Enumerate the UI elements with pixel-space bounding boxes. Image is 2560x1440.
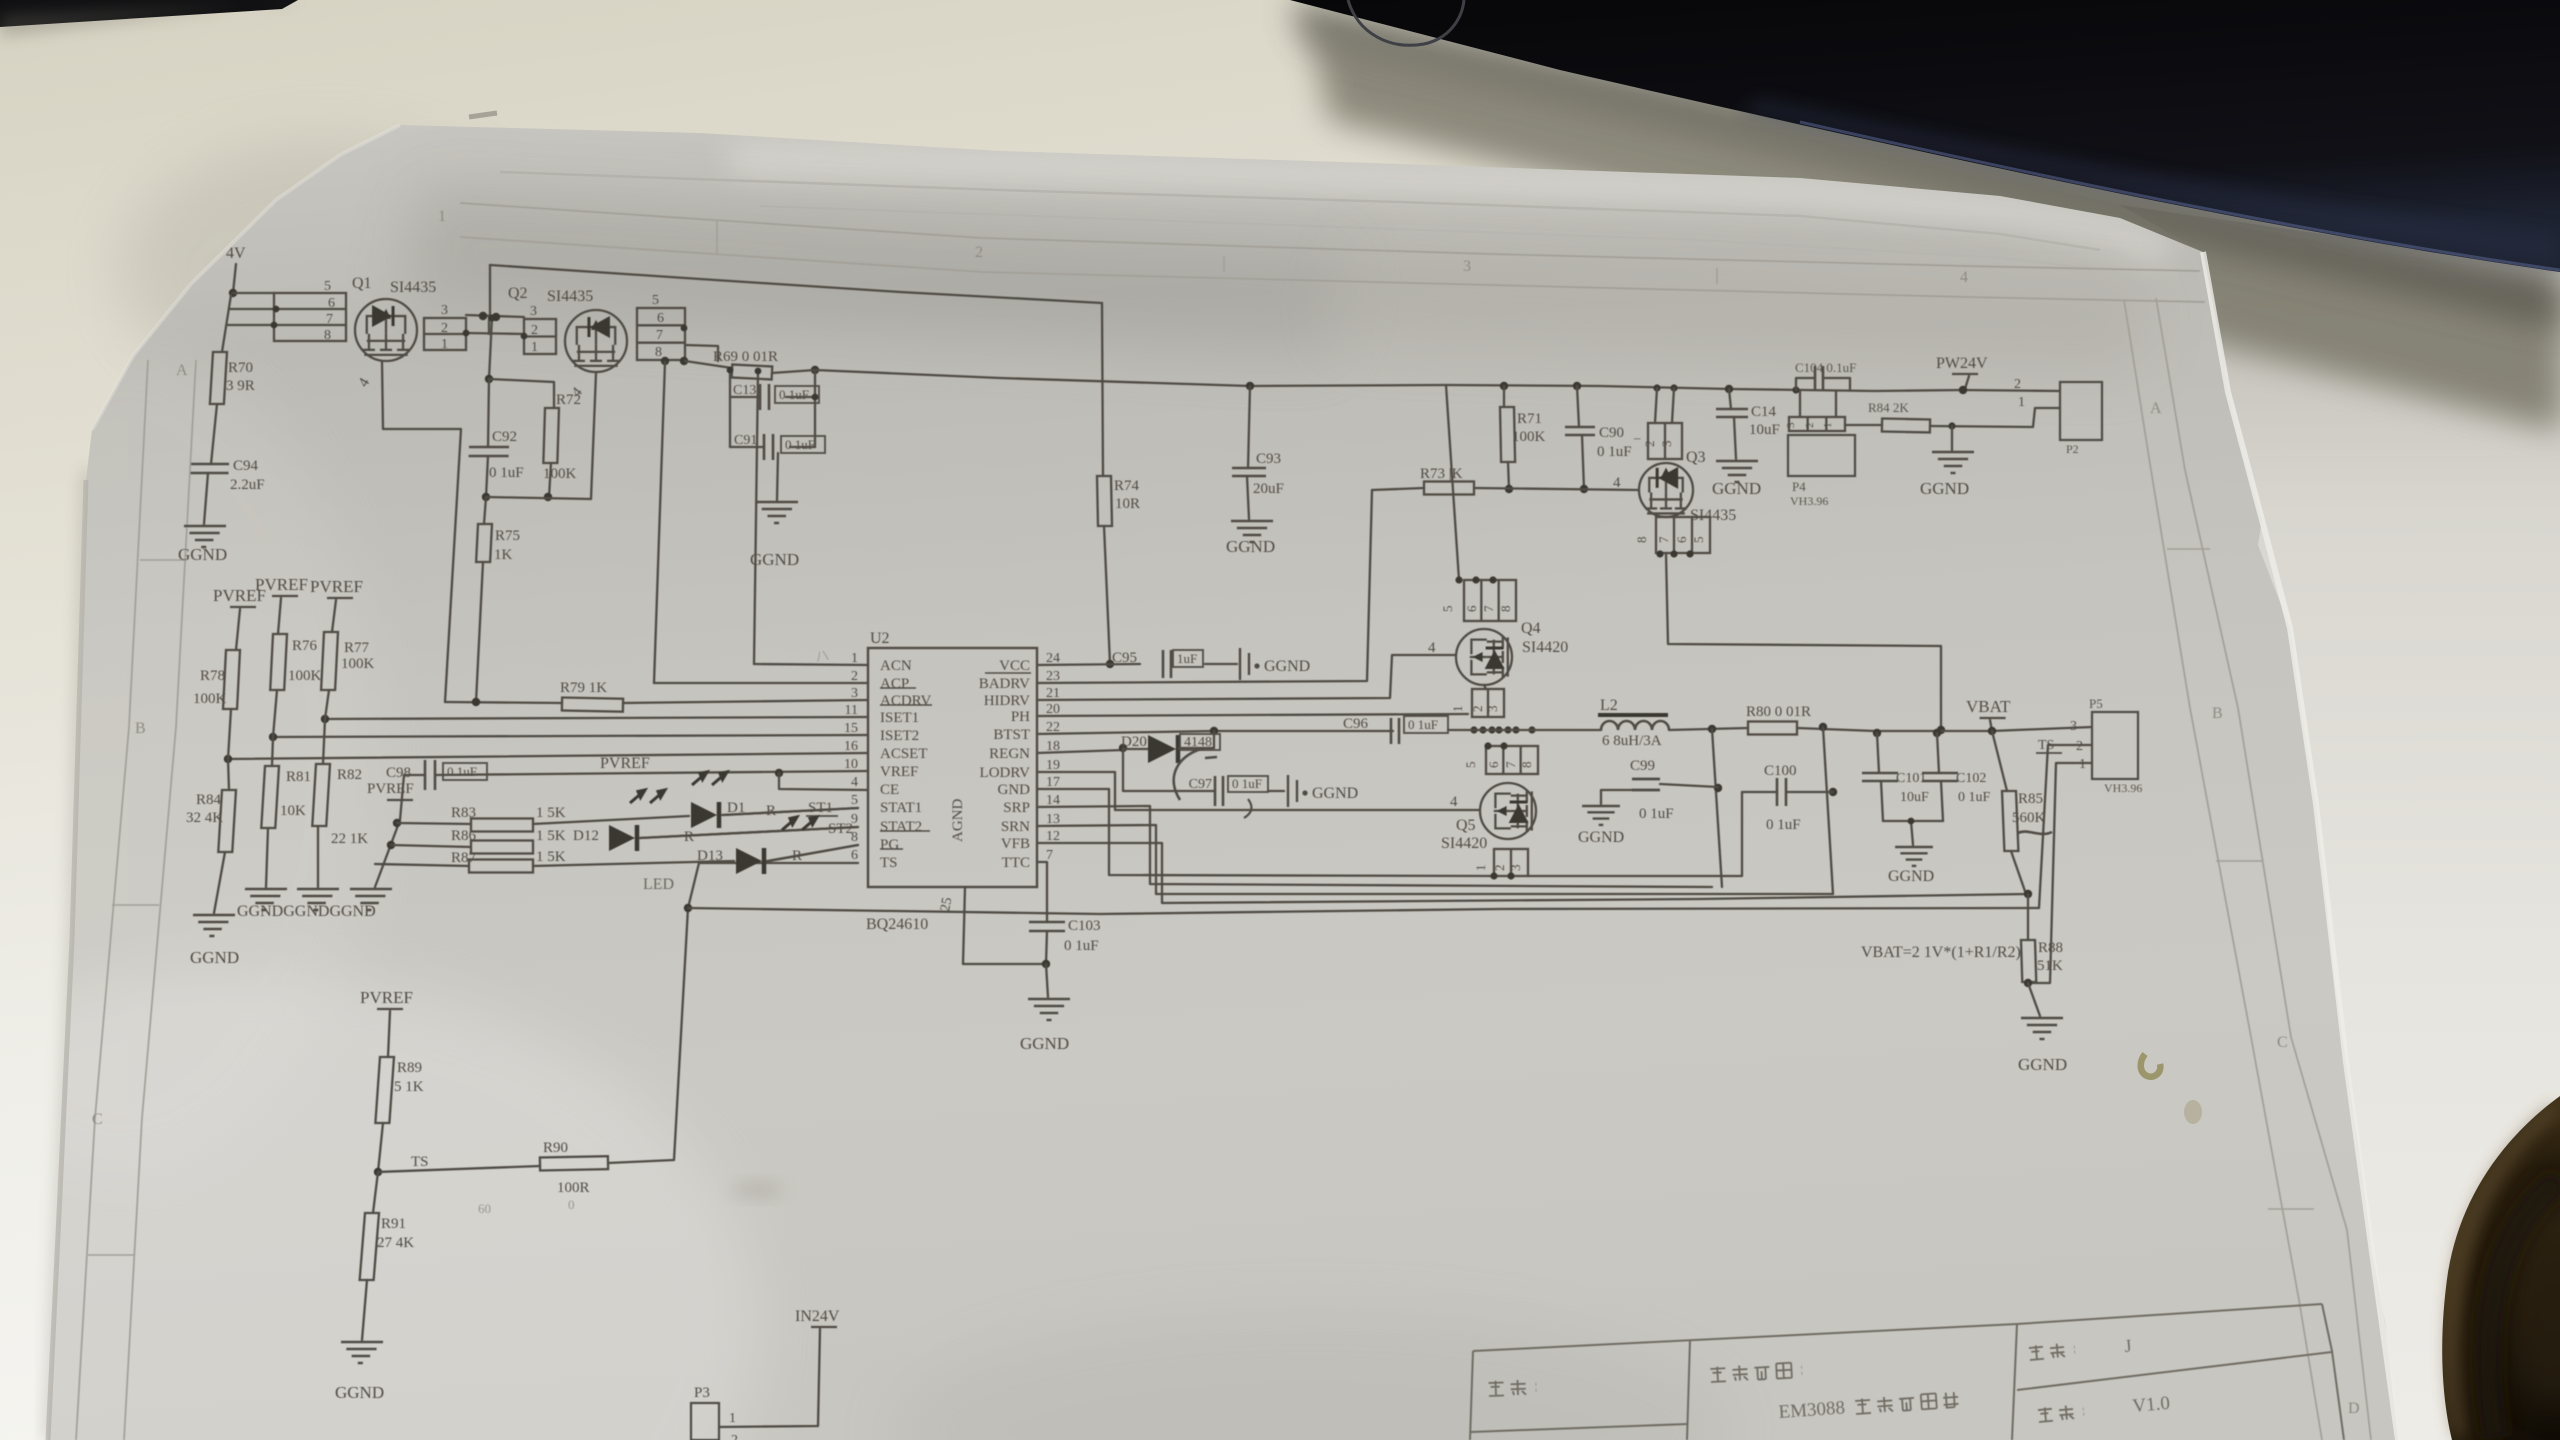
capacitor C97: [1215, 776, 1223, 806]
wire R84a bottom: [214, 852, 225, 913]
node Q1 out b: [492, 313, 500, 321]
wire Q3 pin3 lead: [1672, 388, 1674, 423]
svg-text:5: 5: [1691, 537, 1706, 544]
title block top line: [1473, 1304, 2322, 1351]
resistor R81: [261, 766, 279, 828]
svg-text:3: 3: [441, 303, 448, 318]
svg-text:1 5K: 1 5K: [536, 805, 566, 821]
net PVREF C98 bar: [387, 799, 413, 801]
frame right tick B-C: [2216, 860, 2262, 862]
Q5 bottom pin box: [1494, 849, 1528, 876]
svg-text:6: 6: [328, 296, 335, 311]
svg-text:R85: R85: [2018, 791, 2043, 807]
wire U2 TTC: [1037, 862, 1047, 922]
title text number: [2029, 1342, 2076, 1360]
Q3 bottom pin box: [1656, 517, 1710, 553]
svg-text:0 1uF: 0 1uF: [779, 387, 809, 402]
resistor R77: [321, 632, 338, 690]
paper top edge highlight band: [730, 160, 2170, 250]
node ISET2 R81 column: [269, 733, 277, 741]
svg-text:2: 2: [975, 244, 983, 261]
node PH row 6: [1528, 726, 1535, 733]
resistor R88: [2021, 940, 2036, 982]
capacitor C103: [1029, 922, 1065, 931]
ground GGND 2: [295, 889, 339, 910]
svg-text:C91: C91: [734, 433, 757, 448]
svg-text:SI4435: SI4435: [390, 279, 436, 296]
desk contact shadow left of paper: [50, 470, 88, 1440]
resistor R82: [312, 764, 330, 826]
title text charger-circuit: [1855, 1392, 1959, 1414]
wire GND bus right: [1528, 792, 1742, 876]
svg-text:BADRV: BADRV: [979, 676, 1030, 692]
transistor Q3: [1639, 463, 1693, 517]
svg-text:Q3: Q3: [1686, 449, 1706, 466]
wire REGN to D20: [1123, 748, 1148, 750]
svg-text:R: R: [792, 848, 802, 864]
wire U2 pin16 ACSET: [228, 753, 868, 759]
svg-text:2.2uF: 2.2uF: [230, 477, 265, 493]
ground GGND under C91: [756, 502, 798, 523]
connector P3 body: [691, 1403, 719, 1440]
wire VCC to C95: [1037, 664, 1140, 665]
svg-text:R75: R75: [495, 528, 520, 544]
wire R71 top: [1503, 386, 1505, 407]
wire C97 to gnd: [1268, 790, 1284, 792]
svg-text:Q1: Q1: [352, 275, 372, 292]
svg-text:R82: R82: [337, 767, 362, 783]
svg-text:GGND: GGND: [1712, 479, 1761, 498]
wire R76 bottom: [273, 690, 277, 737]
svg-text:R78: R78: [200, 668, 225, 684]
sheet frame top outer line: [460, 203, 2200, 271]
round dark object bottom-right: [2442, 1096, 2560, 1440]
svg-text:4: 4: [1960, 269, 1968, 286]
svg-text:BTST: BTST: [993, 727, 1030, 743]
svg-text:P2: P2: [2066, 442, 2079, 456]
frame left tick A-B: [140, 559, 187, 561]
paper shadow top-right: [1330, 245, 2150, 370]
svg-text:PVREF: PVREF: [255, 575, 308, 594]
svg-text:1: 1: [2079, 757, 2086, 772]
svg-text:PVREF: PVREF: [367, 781, 414, 797]
svg-text:0 1uF: 0 1uF: [1064, 938, 1099, 954]
svg-text:IN24V: IN24V: [795, 1308, 840, 1325]
net IN24V bar: [811, 1326, 837, 1328]
wire U2 pin4 CE: [779, 773, 868, 790]
svg-text:4V: 4V: [226, 245, 246, 262]
wire R85 bottom: [2011, 851, 2026, 894]
svg-text:0 1uF: 0 1uF: [1232, 776, 1262, 791]
wire U2 pin15 ISET2: [273, 735, 868, 737]
wire R81 bottom: [266, 828, 268, 887]
ground GGND at C99: [1582, 806, 1620, 825]
Q2 left pin box: [524, 319, 556, 354]
wire C100 left lead: [1742, 791, 1777, 793]
capacitor C99: [1632, 779, 1660, 790]
svg-text:100K: 100K: [543, 466, 577, 482]
svg-text:C101: C101: [1896, 771, 1926, 786]
wire U2 pin10 VREF row: [436, 771, 868, 775]
thin cable loop: [1348, 0, 1464, 45]
resistor R73: [1424, 482, 1474, 495]
frame right tick C-D: [2268, 1208, 2314, 1210]
node R84 gnd tap: [1948, 422, 1955, 429]
transistor Q2: [565, 310, 627, 372]
wire ACN vertical: [754, 371, 758, 664]
ground GGND near P2: [1932, 452, 1974, 473]
LED arrows ST2: [782, 817, 817, 830]
wire R80 to VBAT: [1797, 727, 2092, 731]
svg-text:20uF: 20uF: [1253, 481, 1284, 497]
svg-text:16: 16: [844, 739, 858, 754]
Q2 right pin box: [637, 308, 685, 360]
svg-text:11: 11: [845, 703, 858, 718]
node Q1 out a: [479, 312, 487, 320]
wire R75 top: [484, 497, 486, 524]
under sheet shadow band: [2150, 230, 2560, 420]
svg-text:TS: TS: [411, 1154, 429, 1170]
svg-text:C90: C90: [1599, 425, 1624, 441]
resistor R71: [1500, 407, 1515, 462]
wire U2 BADRV: [1037, 490, 1372, 683]
svg-text:100K: 100K: [288, 668, 322, 684]
node PH row 0: [1470, 726, 1477, 733]
svg-text:TTC: TTC: [1002, 855, 1030, 871]
capacitor C96: [1391, 718, 1399, 744]
wire C104 stub: [1796, 378, 1815, 390]
title block left edge: [1470, 1351, 1473, 1440]
svg-text:A: A: [2150, 400, 2162, 417]
svg-text:R88: R88: [2038, 940, 2063, 956]
capacitor C94: [191, 464, 229, 473]
olive stain: [2141, 1054, 2161, 1077]
svg-text:10: 10: [844, 757, 858, 772]
svg-text:GGND: GGND: [1226, 537, 1275, 556]
paper stack crease line 2: [760, 206, 2090, 268]
wire PVREF stub R78: [236, 609, 240, 650]
wire R81 top: [272, 737, 273, 766]
node C14 rail tap: [1725, 385, 1733, 393]
node Q1 box row6: [273, 306, 280, 313]
svg-text:R84: R84: [196, 792, 222, 808]
svg-text:8: 8: [1519, 762, 1534, 769]
node PW24V rail: [1959, 386, 1967, 394]
svg-text:12: 12: [1046, 829, 1060, 844]
wire C92 mid: [488, 379, 489, 447]
capacitor C104: [1815, 366, 1823, 390]
P4 pin box: [1789, 417, 1845, 431]
svg-text:BQ24610: BQ24610: [866, 916, 928, 933]
wire R85 top: [1992, 731, 2007, 791]
Q4 top pin box: [1464, 580, 1516, 621]
svg-text:PVREF: PVREF: [310, 577, 363, 596]
node C92 top junction: [485, 375, 493, 383]
wire R82 bottom: [317, 826, 319, 887]
transistor Q4: [1456, 629, 1512, 685]
svg-text:GGND: GGND: [190, 948, 239, 967]
wire SRN sense vertical: [1823, 727, 1833, 894]
wire C102 top: [1937, 733, 1939, 773]
svg-text:GGND: GGND: [1312, 785, 1358, 802]
svg-text:R76: R76: [292, 638, 318, 654]
svg-text:LODRV: LODRV: [980, 765, 1031, 781]
svg-text:7: 7: [1503, 761, 1518, 768]
svg-text:GGND: GGND: [1920, 479, 1969, 498]
node VREF-CE junction: [775, 769, 783, 777]
U2 overline PG: [880, 848, 903, 850]
wire Q1 to Q2 row2: [466, 333, 524, 334]
wire R89 bottom: [378, 1123, 383, 1172]
wire U2 pin11 ISET1: [325, 717, 868, 719]
svg-text:GGND: GGND: [1020, 1034, 1069, 1053]
frame left tick C-D: [88, 1254, 135, 1256]
capacitor C91: [764, 434, 773, 460]
node LED row1 tap: [393, 819, 401, 827]
svg-text:VREF: VREF: [880, 764, 918, 780]
svg-text:ACP: ACP: [880, 676, 909, 692]
svg-text:R90: R90: [543, 1140, 568, 1156]
svg-text:AGND: AGND: [950, 799, 966, 842]
svg-text:ハ: ハ: [814, 649, 830, 666]
wire PH node row: [1448, 729, 1601, 731]
wire U2 GND17: [1037, 789, 1494, 876]
svg-text:TS: TS: [2038, 738, 2054, 753]
wire U2 VFB: [1037, 843, 2028, 903]
wire LED row3: [375, 864, 469, 866]
svg-text:6 8uH/3A: 6 8uH/3A: [1602, 733, 1662, 749]
Q4 bottom pin box: [1472, 689, 1504, 717]
svg-text:C96: C96: [1343, 716, 1369, 732]
paper bright left-mid: [0, 340, 380, 1180]
resistor R75: [476, 524, 492, 562]
node C92 wire tap: [488, 314, 495, 321]
svg-text:6: 6: [657, 311, 664, 326]
resistor R85: [2002, 791, 2018, 851]
torn right edge highlight: [2203, 252, 2398, 1440]
svg-text:TS: TS: [880, 855, 898, 871]
wire U2 pin3 ACDRV / R79 row: [623, 700, 868, 703]
inductor L2: [1601, 721, 1669, 730]
node Q2 out row8b: [680, 357, 688, 365]
connector P5 body: [2092, 712, 2138, 779]
wire R84a top: [228, 759, 229, 790]
svg-text:5: 5: [1463, 762, 1478, 769]
svg-text:B: B: [2212, 705, 2223, 722]
paper corner shadow: [120, 140, 540, 400]
svg-text:8: 8: [655, 345, 662, 360]
svg-text:0 1uF: 0 1uF: [1597, 444, 1632, 460]
svg-text:Q2: Q2: [508, 285, 528, 302]
wire Q1 gate: [382, 361, 461, 702]
svg-text:C100: C100: [1764, 763, 1797, 779]
wire Q1 row7 stub: [228, 324, 274, 326]
svg-text:R80 0 01R: R80 0 01R: [1746, 704, 1811, 720]
ground GGND 4: [191, 915, 235, 936]
wire C92 bottom: [486, 456, 488, 497]
U2 overline ACDRV: [880, 704, 932, 706]
svg-text:0: 0: [568, 1197, 575, 1212]
Q1 left pin box: [274, 293, 346, 341]
wire R88 to ground: [2028, 983, 2040, 1016]
wire C98 left lead: [375, 775, 425, 887]
svg-text:51K: 51K: [2037, 958, 2063, 974]
wire C91 right lead: [790, 446, 815, 448]
wire U2 pin9 STAT2: [640, 827, 858, 838]
svg-text:C97: C97: [1189, 777, 1212, 792]
paper edge shadow along left: [48, 480, 86, 1440]
wire C101 top: [1877, 733, 1879, 773]
wire PW24V stub: [1965, 376, 1969, 389]
svg-text:Q5: Q5: [1456, 817, 1476, 834]
wire P4 lead1: [1835, 391, 1837, 417]
wire R82 top: [323, 719, 325, 764]
svg-text:C93: C93: [1256, 451, 1281, 467]
svg-text:C102: C102: [1956, 771, 1986, 786]
capacitor C92: [469, 447, 509, 456]
svg-text:L2: L2: [1600, 697, 1618, 714]
wire C14 top: [1729, 389, 1731, 409]
wire C90 top: [1577, 386, 1579, 427]
ground GGND under R91: [339, 1342, 383, 1363]
wire R70 top lead: [222, 295, 231, 352]
svg-text:5: 5: [652, 293, 659, 308]
wire U2 pin8 PG: [769, 845, 858, 861]
svg-text:4: 4: [1613, 475, 1621, 491]
wire R84 to P2 pin1: [1930, 408, 2060, 427]
svg-text:2: 2: [1470, 706, 1485, 713]
svg-text:1 5K: 1 5K: [536, 849, 566, 865]
wire U2 pin2 ACP: [654, 682, 868, 684]
wire D13 to pin8: [767, 845, 858, 861]
node Q3 src b: [1670, 550, 1677, 557]
sheet frame top inner line: [460, 237, 2205, 302]
wire TS long: [688, 745, 2092, 914]
black object edge sheen: [1800, 122, 2560, 270]
wire Q3 source to VBAT: [1666, 554, 1941, 729]
wire TS row: [378, 1166, 540, 1172]
wire R88 top: [2027, 894, 2029, 940]
LED D12: [609, 825, 635, 851]
resistor R69: [732, 365, 773, 380]
svg-text:GGND: GGND: [1888, 868, 1934, 885]
svg-text:1: 1: [438, 208, 446, 225]
L2 underline: [1598, 713, 1668, 717]
wire C93 to ground: [1247, 476, 1249, 519]
wire U2 SRP: [1037, 806, 1712, 887]
svg-text:ACSET: ACSET: [880, 746, 928, 762]
svg-text:2: 2: [2076, 739, 2083, 754]
svg-text:10R: 10R: [1115, 496, 1140, 512]
wire D12 to pin9: [640, 827, 858, 838]
svg-text:3: 3: [1659, 441, 1674, 448]
svg-text:2: 2: [1642, 441, 1657, 448]
svg-text:2: 2: [1492, 865, 1507, 872]
wire U2 PH: [1037, 714, 1468, 716]
net PVREF bottom bar: [377, 1008, 403, 1010]
svg-text:R79 1K: R79 1K: [560, 680, 607, 696]
wire PVREF to R89: [388, 1011, 390, 1057]
node PH row 3: [1495, 726, 1502, 733]
node C13 bus top: [812, 394, 819, 401]
node VBAT: [1988, 727, 1996, 735]
node C102 tap: [1933, 729, 1941, 737]
node Q4 top c: [1489, 576, 1496, 583]
paper edge highlight along cut corner: [92, 125, 400, 430]
svg-text:STAT2: STAT2: [880, 819, 922, 835]
wire C100 right lead: [1786, 791, 1833, 793]
net PW24V bar: [1952, 373, 1978, 375]
wire C13-C91 left bus: [729, 370, 731, 447]
node L2 out: [1708, 725, 1716, 733]
node PH row 1: [1479, 726, 1486, 733]
wire U2 AGND pin: [963, 887, 1046, 964]
node C13 left tap: [727, 367, 734, 374]
svg-text:VBAT=2 1V*(1+R1/R2): VBAT=2 1V*(1+R1/R2): [1861, 944, 2021, 961]
svg-text:8: 8: [1634, 537, 1649, 544]
resistor R78: [223, 650, 240, 709]
node TS bottom: [374, 1168, 382, 1176]
Q1 right pin box: [424, 318, 466, 350]
svg-text:C: C: [92, 1111, 103, 1128]
wire P4 lead3: [1799, 391, 1801, 417]
black object glossy navy strip: [1740, 98, 2560, 268]
svg-text:4: 4: [1450, 794, 1458, 810]
svg-text:P5: P5: [2089, 696, 2103, 711]
svg-text:3: 3: [851, 686, 858, 701]
svg-text:15: 15: [844, 721, 858, 736]
C96 value box: [1404, 716, 1448, 733]
frame tick zone 1-2: [716, 221, 718, 254]
net PVREF mid bar: [272, 595, 298, 597]
svg-text:100K: 100K: [1512, 429, 1546, 445]
wire R70 to C94: [211, 404, 217, 464]
svg-text:ACDRV: ACDRV: [880, 693, 931, 709]
frame right inner line: [2156, 298, 2371, 1440]
svg-text:1: 1: [729, 1411, 736, 1426]
svg-text:SI4435: SI4435: [547, 288, 593, 305]
ST1 underline: [806, 815, 838, 817]
svg-text:ST1: ST1: [808, 800, 833, 816]
capacitor C95: [1163, 650, 1171, 678]
svg-text:SI4420: SI4420: [1441, 835, 1487, 852]
svg-text:2: 2: [1804, 423, 1816, 429]
resistor R84a: [218, 790, 236, 852]
node VFB divider: [2024, 890, 2032, 898]
wire C103 bottom: [1046, 931, 1047, 964]
svg-text:60: 60: [478, 1201, 491, 1216]
wire L2 to R80: [1669, 728, 1748, 730]
svg-text:4: 4: [1428, 640, 1436, 656]
black strip top-left corner: [0, 0, 298, 27]
svg-text:R89: R89: [397, 1060, 422, 1076]
net PVREF right bar: [327, 597, 353, 599]
wire Q2 gate: [591, 373, 596, 499]
paper soft shade bottom-centre: [890, 1310, 1730, 1440]
dark shadow hugging object edge: [1292, 0, 2560, 328]
svg-text:20: 20: [1046, 702, 1060, 717]
svg-text:PH: PH: [1011, 709, 1030, 725]
node Q4 top a: [1455, 576, 1462, 583]
resistor R89: [375, 1057, 394, 1123]
node Q4 top b: [1472, 576, 1479, 583]
title block divider file/no: [2012, 1324, 2017, 1440]
svg-text:GGND: GGND: [750, 550, 799, 569]
svg-text:GGND: GGND: [1578, 829, 1624, 846]
svg-text:GND: GND: [998, 782, 1031, 798]
svg-text:1: 1: [531, 340, 538, 355]
wire R84 row: [1845, 424, 1882, 426]
